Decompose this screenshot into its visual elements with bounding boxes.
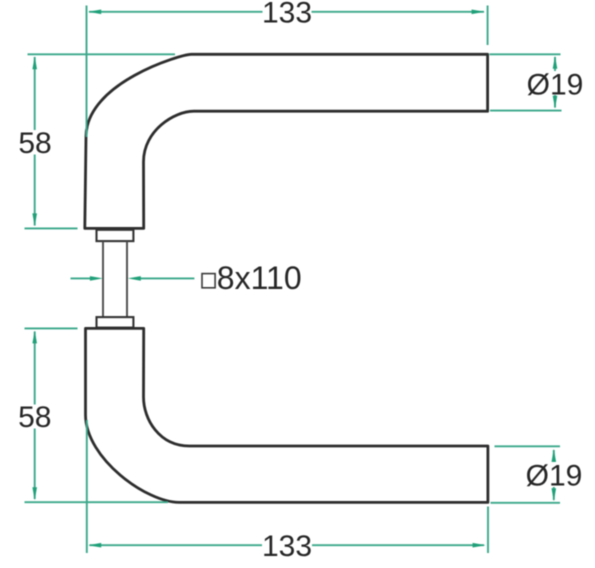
dimension 133 top: right extension line xyxy=(487,6,489,46)
dimension dia19 top: lower extension line xyxy=(490,110,562,112)
spindle dimension: right leader line xyxy=(140,277,194,279)
dimension 133 top: dimension line left segment xyxy=(89,11,263,13)
dimension 58 top: lower extension line xyxy=(25,227,78,229)
dimension 133 top: left extension line xyxy=(86,6,88,138)
spindle dimension: right arrowhead (points left) xyxy=(128,276,141,281)
dimension 58 top: upper extension line xyxy=(28,53,176,55)
dimension dia19 top: dimension line upper segment xyxy=(554,57,556,71)
top collar xyxy=(97,230,134,241)
svg-text:Ø19: Ø19 xyxy=(527,68,584,101)
dimension 133 top: left arrowhead xyxy=(88,10,101,15)
dimension 58 bottom: dimension line upper segment xyxy=(34,332,36,405)
dimension 133 bottom: left arrowhead xyxy=(88,543,101,548)
spindle dimension: left leader line xyxy=(71,277,92,279)
svg-text:58: 58 xyxy=(18,401,51,434)
dimension 133 bottom: dimension line left segment xyxy=(90,544,263,546)
dimension 133 bottom: right arrowhead xyxy=(473,543,486,548)
dimension dia19 top: up arrowhead xyxy=(553,56,558,69)
dimension 58 top: up arrowhead xyxy=(32,56,37,69)
dimension dia19 bottom: lower extension line xyxy=(491,502,561,504)
dimension 58 bottom: down arrowhead xyxy=(32,487,37,500)
dimension 58 bottom: dimension line lower segment xyxy=(34,429,36,500)
dimension dia19 bottom: down arrowhead xyxy=(552,488,557,501)
svg-text:Ø19: Ø19 xyxy=(526,460,583,493)
spindle dimension: square symbol xyxy=(202,274,215,288)
dimension dia19 top: upper extension line xyxy=(490,53,561,55)
dimension dia19 top: dimension line lower segment xyxy=(554,95,556,108)
dimension 133 top: right arrowhead xyxy=(472,10,485,15)
dimension 133 bottom: left extension line xyxy=(86,420,88,553)
dimension 58 bottom: upper extension line xyxy=(25,327,78,329)
dimension dia19 top: down arrowhead xyxy=(553,96,558,109)
dimension dia19 bottom: upper extension line xyxy=(495,445,561,447)
spindle dimension: left arrowhead (points right) xyxy=(90,276,103,281)
top lever handle outline xyxy=(85,54,488,228)
bottom collar xyxy=(97,317,134,328)
svg-text:133: 133 xyxy=(262,0,312,30)
dimension 58 bottom: up arrowhead xyxy=(32,330,37,343)
dimension 133 bottom: dimension line right segment xyxy=(312,544,484,546)
dimension dia19 bottom: dimension line lower segment xyxy=(553,487,555,500)
svg-text:133: 133 xyxy=(262,530,312,563)
spindle right edge xyxy=(126,241,128,317)
bottom lever handle outline xyxy=(86,328,488,502)
dimension 58 top: dimension line upper segment xyxy=(34,57,36,130)
dimension 133 top: dimension line right segment xyxy=(312,11,485,13)
svg-text:58: 58 xyxy=(18,127,51,160)
dimension 133 bottom: right extension line xyxy=(487,507,489,554)
dimension 58 bottom: lower extension line xyxy=(25,501,169,503)
dimension dia19 bottom: dimension line upper segment xyxy=(553,450,555,462)
dimension 58 top: down arrowhead xyxy=(32,213,37,226)
svg-text:8x110: 8x110 xyxy=(217,260,302,296)
dimension dia19 bottom: up arrowhead xyxy=(552,449,557,462)
spindle left edge xyxy=(102,241,104,317)
dimension 58 top: dimension line lower segment xyxy=(34,155,36,226)
